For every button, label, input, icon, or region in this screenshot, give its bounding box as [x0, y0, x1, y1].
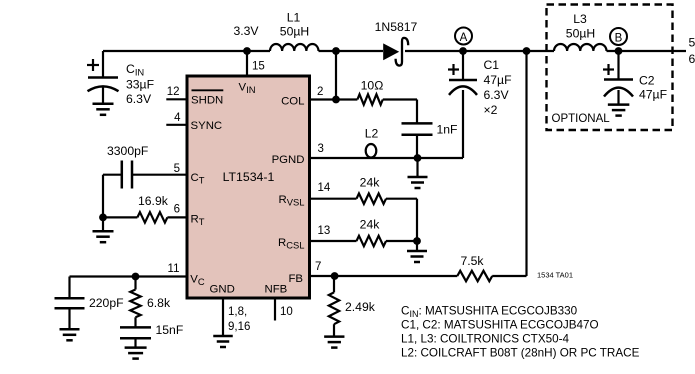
- svg-text:1,8,: 1,8,: [228, 306, 247, 318]
- svg-text:3: 3: [318, 143, 324, 155]
- svg-text:6: 6: [689, 52, 695, 66]
- svg-text:6.8k: 6.8k: [147, 296, 171, 310]
- svg-text:47µF: 47µF: [639, 88, 667, 102]
- svg-text:2: 2: [317, 86, 323, 98]
- svg-text:L1, L3: COILTRONICS CTX50-4: L1, L3: COILTRONICS CTX50-4: [401, 333, 570, 346]
- svg-text:10: 10: [280, 306, 293, 318]
- svg-text:GND: GND: [210, 284, 235, 296]
- svg-text:5: 5: [174, 163, 180, 175]
- svg-text:PGND: PGND: [272, 154, 305, 166]
- svg-text:×2: ×2: [484, 103, 498, 117]
- svg-text:C1, C2: MATSUSHITA ECGCOJB47O: C1, C2: MATSUSHITA ECGCOJB47O: [401, 319, 599, 332]
- svg-text:SYNC: SYNC: [191, 120, 223, 132]
- svg-text:7: 7: [315, 261, 321, 273]
- svg-text:6: 6: [174, 204, 180, 216]
- svg-text:5: 5: [689, 36, 695, 50]
- svg-text:FB: FB: [288, 273, 303, 285]
- svg-text:1534 TA01: 1534 TA01: [537, 271, 573, 280]
- svg-text:14: 14: [318, 182, 331, 194]
- svg-text:16.9k: 16.9k: [138, 194, 169, 208]
- svg-text:13: 13: [318, 225, 331, 237]
- svg-text:15nF: 15nF: [156, 323, 184, 337]
- svg-text:LT1534-1: LT1534-1: [223, 170, 275, 184]
- svg-text:9,16: 9,16: [228, 321, 250, 333]
- svg-text:11: 11: [168, 263, 180, 275]
- svg-text:15: 15: [252, 61, 265, 73]
- svg-text:220pF: 220pF: [89, 296, 124, 310]
- svg-text:6.3V: 6.3V: [126, 92, 152, 106]
- svg-text:47µF: 47µF: [484, 73, 512, 87]
- svg-text:1nF: 1nF: [437, 123, 458, 137]
- svg-text:33µF: 33µF: [126, 78, 154, 92]
- svg-text:L2: COILCRAFT B08T (28nH) OR P: L2: COILCRAFT B08T (28nH) OR PC TRACE: [401, 347, 640, 360]
- svg-text:RCSL: RCSL: [278, 237, 304, 251]
- svg-text:C1: C1: [484, 58, 500, 72]
- svg-text:12: 12: [167, 86, 180, 98]
- svg-text:50µH: 50µH: [280, 25, 309, 39]
- svg-text:VC: VC: [190, 274, 205, 288]
- svg-text:4: 4: [174, 112, 181, 124]
- svg-text:1N5817: 1N5817: [375, 20, 418, 34]
- svg-text:L2: L2: [365, 127, 379, 141]
- svg-text:OPTIONAL: OPTIONAL: [552, 113, 611, 125]
- svg-text:VIN: VIN: [239, 82, 256, 96]
- svg-text:50µH: 50µH: [566, 27, 595, 41]
- svg-text:L1: L1: [287, 11, 301, 25]
- svg-text:24k: 24k: [360, 176, 381, 190]
- svg-text:NFB: NFB: [265, 284, 288, 296]
- svg-text:CT: CT: [191, 172, 205, 186]
- svg-text:L3: L3: [573, 12, 587, 26]
- svg-text:6.3V: 6.3V: [484, 88, 510, 102]
- svg-text:SHDN: SHDN: [191, 94, 223, 106]
- svg-text:RT: RT: [191, 213, 205, 227]
- svg-text:CIN: MATSUSHITA ECGCOJB330: CIN: MATSUSHITA ECGCOJB330: [401, 305, 578, 320]
- svg-text:24k: 24k: [360, 218, 381, 232]
- svg-text:7.5k: 7.5k: [460, 254, 484, 268]
- svg-text:3.3V: 3.3V: [233, 24, 259, 38]
- svg-text:3300pF: 3300pF: [107, 144, 148, 158]
- svg-text:C2: C2: [639, 74, 655, 88]
- svg-text:A: A: [460, 32, 468, 44]
- svg-text:B: B: [615, 32, 623, 44]
- svg-text:RVSL: RVSL: [279, 194, 305, 208]
- svg-text:10Ω: 10Ω: [361, 79, 384, 93]
- svg-text:COL: COL: [281, 96, 304, 108]
- svg-text:2.49k: 2.49k: [345, 300, 376, 314]
